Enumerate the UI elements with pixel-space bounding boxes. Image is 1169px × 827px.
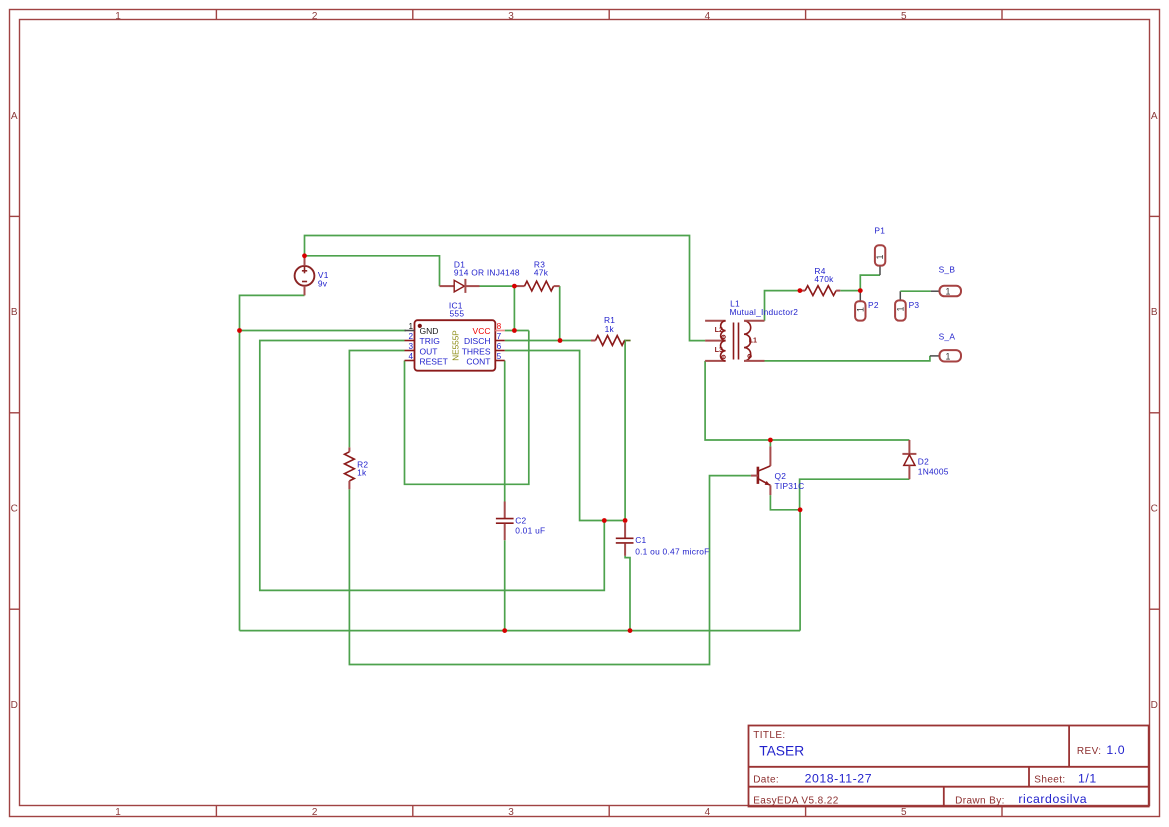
pin 2 stub [405,340,415,342]
wire R3 right down to DISCH node [559,286,561,340]
wire GND pin1 to left rail [240,330,406,332]
wire R4 right to P-node [840,290,860,292]
svg-text:3: 3 [508,11,514,22]
svg-text:1: 1 [946,351,951,361]
mutual inductor L1 [705,321,764,361]
svg-text:555: 555 [450,309,465,319]
resistor R2 [345,447,355,489]
pin 5 stub [495,360,504,362]
svg-text:4: 4 [705,11,711,22]
wire DISCH row to R1 left [505,340,592,342]
svg-text:C: C [1151,504,1158,515]
svg-text:4: 4 [705,807,711,818]
svg-text:5: 5 [497,352,502,361]
svg-text:TASER: TASER [759,744,804,759]
svg-text:1: 1 [408,322,413,331]
svg-text:914 OR INJ4148: 914 OR INJ4148 [454,267,520,277]
wire L1 secondary top up to R4 left node [765,291,800,321]
wire R2 bottom to Q2 base [349,476,751,665]
svg-text:TRIG: TRIG [420,336,440,346]
capacitor C1 [616,523,634,556]
svg-text:1k: 1k [605,324,615,334]
ruler tick left 2 [10,412,20,414]
wire THRES to C1 top node [505,351,625,521]
svg-text:Drawn By:: Drawn By: [955,795,1005,806]
svg-text:5: 5 [901,11,907,22]
svg-text:S_A: S_A [939,331,956,341]
svg-text:A: A [11,111,18,122]
svg-text:ricardosilva: ricardosilva [1018,792,1087,806]
wire L1 secondary bottom to S_A [765,356,930,361]
svg-text:EasyEDA V5.8.22: EasyEDA V5.8.22 [753,795,839,806]
svg-text:THRES: THRES [462,346,491,356]
op-amp IC1 555 timer body [405,320,505,371]
wire VCC node to RESET loop right side [405,331,529,485]
capacitor C2 [496,502,514,541]
svg-text:2018-11-27: 2018-11-27 [805,771,873,785]
svg-text:0.1 ou 0.47 microF: 0.1 ou 0.47 microF [635,546,709,556]
ruler tick bottom 2 [412,806,414,817]
node C2 ground bus junction [502,628,507,633]
wire node VCC2 down to pin8 node [513,286,515,330]
ruler tick right 3 [1150,608,1160,610]
wire V1 plus to D1 anode [305,256,440,286]
svg-text:TITLE:: TITLE: [753,730,785,741]
node C1 ground bus junction [628,628,633,633]
svg-text:9v: 9v [318,279,328,289]
svg-text:1N4005: 1N4005 [918,466,949,476]
transistor Q2 [751,446,771,495]
wire overlap R1 right lead (olive) [624,340,631,342]
pin 6 stub [495,350,504,352]
node TRIG-THRES junction [602,518,607,523]
wire R1 right down to C1 top node [624,340,626,521]
svg-text:3: 3 [508,807,514,818]
svg-text:S_B: S_B [939,265,956,275]
node VCC pin8 junction [512,328,517,333]
ruler tick right 2 [1150,412,1160,414]
diode D1 [440,279,480,293]
svg-text:REV:: REV: [1077,746,1102,757]
svg-text:Q2: Q2 [775,471,787,481]
ruler tick top 3 [608,10,610,20]
svg-text:Date:: Date: [753,774,779,785]
wire Q2 emitter to node and down to ground bus [770,495,800,630]
pin 1 stub [405,330,415,332]
node R4 right junction [858,288,863,293]
svg-text:470k: 470k [814,274,834,284]
svg-text:4: 4 [408,352,413,361]
diode D2 [902,440,916,479]
wire C2 bottom to ground bus [504,540,506,630]
svg-text:L3: L3 [715,345,723,354]
svg-text:1: 1 [946,286,951,296]
svg-text:8: 8 [497,322,502,331]
svg-text:VCC: VCC [473,326,491,336]
svg-text:6: 6 [497,342,502,351]
svg-text:1.0: 1.0 [1106,743,1125,757]
wire P-node up to P1 [860,275,880,291]
svg-text:A: A [1151,111,1158,122]
ruler tick bottom 4 [805,806,807,817]
title block row divider 1 [749,766,1149,768]
resistor R4 [800,286,840,296]
resistor R3 [514,281,559,291]
ruler tick bottom 1 [215,806,217,817]
pad S_B [940,286,962,297]
svg-text:B: B [1151,307,1158,318]
svg-text:1: 1 [895,306,905,311]
svg-text:P1: P1 [874,226,885,236]
pin stub P1 [879,266,881,276]
node DISCH junction [558,338,563,343]
svg-text:TIP31C: TIP31C [775,481,805,491]
node D1-R3 junction [512,284,517,289]
svg-text:OUT: OUT [420,346,438,356]
svg-text:D: D [1151,700,1158,711]
wire CONT pin5 down to C2 [504,361,506,502]
wire P3 to S_B [900,290,931,292]
svg-text:D2: D2 [918,457,929,467]
ruler tick top 2 [412,10,414,20]
ruler tick bottom 3 [608,806,610,817]
pin stub P3 [899,291,901,300]
wire D2 bottom to emitter node [800,479,910,510]
svg-text:1: 1 [875,254,885,259]
svg-text:1/1: 1/1 [1078,771,1097,785]
ruler tick bottom 5 [1001,806,1003,817]
pad S_A [940,350,962,361]
wire Q2 collector up to node [769,440,771,446]
svg-text:1k: 1k [357,467,367,477]
svg-text:P3: P3 [909,300,920,310]
pin stub S_B [931,290,940,292]
pin 8 stub [495,330,504,332]
svg-text:3: 3 [408,342,413,351]
ruler tick top 1 [215,10,217,20]
ruler tick top 5 [1001,10,1003,20]
svg-text:C2: C2 [515,515,526,525]
ruler tick right 1 [1150,215,1160,217]
node Q2 emitter junction [798,507,803,512]
title block row divider 2 [749,786,1149,788]
svg-text:C1: C1 [635,535,646,545]
svg-text:P2: P2 [868,300,879,310]
svg-text:DISCH: DISCH [464,336,490,346]
pin 4 stub [405,360,415,362]
wire C1 bottom jog to ground bus [625,556,630,631]
svg-text:D: D [11,700,18,711]
pad P1 [875,245,885,265]
wire ground bus bottom [240,630,801,632]
wire V1 plus to top rail to L1 centre tap [305,236,706,341]
title block outline [749,726,1149,807]
ruler tick top 4 [805,10,807,20]
node Q2 collector junction [768,438,773,443]
title block divider REV [1068,726,1070,767]
svg-text:2: 2 [312,11,318,22]
svg-text:7: 7 [497,332,502,341]
node C1 top junction [623,518,628,523]
svg-text:1: 1 [115,807,121,818]
svg-text:L2: L2 [715,325,723,334]
resistor R1 [591,336,625,346]
svg-text:1: 1 [855,307,865,312]
svg-text:5: 5 [901,807,907,818]
title block divider DrawnBy [943,787,945,807]
node GND left rail junction [237,328,242,333]
pin 3 stub [405,350,415,352]
pin stub S_A [930,355,940,357]
wire V1 minus to left rail down [240,295,305,630]
svg-text:C: C [11,504,18,515]
svg-text:47k: 47k [534,267,549,277]
title block divider Sheet [1028,767,1030,787]
node V1 plus junction [302,253,307,258]
pin stub P2 [859,291,861,302]
wire pin8 stub to node [505,330,529,332]
wire OUT pin3 to R2 top [349,351,404,448]
svg-text:Sheet:: Sheet: [1034,774,1065,785]
svg-text:0.01 uF: 0.01 uF [515,525,545,535]
svg-text:B: B [11,307,18,318]
svg-text:CONT: CONT [466,357,490,367]
svg-text:2: 2 [408,332,413,341]
svg-text:2: 2 [312,807,318,818]
svg-text:L1: L1 [749,335,757,344]
wire TRIG loop [260,341,605,591]
svg-text:GND: GND [420,326,439,336]
battery V1 [295,257,315,296]
pin1 indicator dot [418,324,422,328]
pad P2 [855,301,865,320]
ruler tick left 1 [10,215,20,217]
svg-text:NE555P: NE555P [452,330,461,361]
svg-text:1: 1 [115,11,121,22]
wire D1 cathode to node VCC2 [480,285,519,287]
wire L1 bottom-left down across to D2 top [705,361,909,440]
pad P3 [895,300,906,320]
svg-text:RESET: RESET [420,357,448,367]
svg-text:Mutual_Inductor2: Mutual_Inductor2 [730,307,799,317]
node R4 left junction [798,288,803,293]
ruler tick left 3 [10,608,20,610]
pin 7 stub [495,340,504,342]
